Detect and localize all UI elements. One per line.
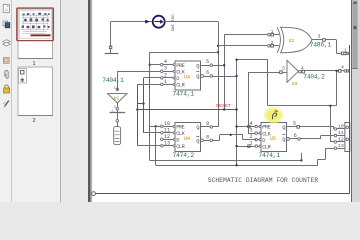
thumbnail page 1 paper — [18, 9, 53, 59]
svg-text:CLR: CLR — [262, 144, 271, 150]
right rail vertical — [236, 60, 238, 166]
svg-text:3: 3 — [249, 128, 252, 134]
reference U4 — [184, 136, 190, 142]
RESET wire — [137, 109, 236, 111]
xor gate U2 — [277, 27, 312, 53]
ground pin square — [109, 46, 111, 48]
page paper — [92, 0, 352, 202]
svg-text:6: 6 — [206, 70, 209, 76]
pad CLR3 wire — [248, 145, 250, 147]
thumbnail page 2 number — [32, 118, 35, 124]
label 1 near switch — [111, 110, 114, 114]
wire to offpage 1 — [336, 48, 349, 55]
svg-text:12: 12 — [338, 137, 344, 143]
title text — [208, 177, 319, 184]
wire D1 left — [144, 78, 161, 133]
wire PRE2 drop — [155, 126, 157, 165]
current arrow on wire — [145, 20, 150, 24]
wire Qbar1 to right rail — [213, 76, 237, 78]
flip-flop U4 — [175, 61, 201, 90]
thumbnail page 1 mini schematic — [20, 11, 52, 39]
pin 11 CLK of U4 — [161, 127, 186, 137]
svg-text:D: D — [262, 138, 265, 144]
jog Qbar3 pin11 — [333, 135, 335, 137]
RESET label — [216, 103, 231, 109]
svg-text:PRE: PRE — [176, 63, 184, 69]
highlight annotation — [264, 107, 283, 123]
pin 3 CLK of U4 — [161, 66, 186, 76]
svg-text:2: 2 — [271, 40, 274, 46]
flip-flop U5 second half clipped — [345, 123, 350, 152]
wire U3 output to offpage 4 — [305, 65, 350, 73]
junction rail reset — [235, 108, 237, 110]
pin 1 of U1 — [114, 87, 119, 91]
pin 3 CLK of U5 — [249, 128, 271, 138]
junction loop D4 — [329, 105, 331, 107]
svg-text:3: 3 — [282, 65, 285, 71]
svg-text:CLR: CLR — [176, 144, 185, 150]
svg-text:13: 13 — [164, 140, 170, 146]
junction U3out — [335, 70, 337, 72]
wire to ground — [110, 22, 112, 47]
pin 11 of U5 second half — [334, 130, 345, 137]
value label 7474,1 — [173, 90, 195, 97]
nav icon pages — [3, 5, 9, 13]
bottom wire B — [150, 153, 302, 161]
pin 4 of U3 — [299, 66, 305, 73]
pin 12 of U5 second half — [334, 137, 345, 144]
svg-text:8: 8 — [206, 134, 209, 140]
wire D4 stub — [330, 141, 334, 143]
svg-text:9: 9 — [206, 121, 209, 127]
sidebar panel right border — [60, 0, 62, 202]
flip-flop U4 — [175, 123, 201, 152]
wire U1 output down — [117, 110, 119, 119]
svg-text:U5: U5 — [270, 136, 276, 142]
svg-text:7404,2: 7404,2 — [303, 74, 325, 81]
svg-text:2: 2 — [32, 118, 35, 124]
wire PRE2 connect — [150, 126, 161, 128]
svg-text:RESET: RESET — [216, 103, 231, 109]
svg-text:2: 2 — [114, 106, 116, 110]
wire XOR pin1 net — [224, 35, 267, 110]
offpage left circle — [92, 192, 96, 196]
wire CLR2 connect — [137, 145, 160, 147]
pin 1 CLR of U4 — [161, 79, 186, 89]
pin 6 Qbar of U5 — [282, 133, 300, 143]
svg-text:3: 3 — [318, 34, 321, 40]
junction rail qbar1 — [235, 75, 237, 77]
pin 2 D of U5 — [249, 134, 265, 144]
pin 4 PRE of U5 — [249, 121, 270, 131]
junction rail 59 — [235, 59, 237, 61]
scrollbar thumb — [352, 0, 357, 69]
wire PRE3 connect — [237, 126, 255, 128]
thumbnail page 1 number — [32, 61, 35, 67]
wire CLR1 left — [137, 84, 160, 145]
schematic border right — [349, 45, 351, 194]
pin 13 CLR of U4 — [161, 140, 186, 150]
wire node A down — [218, 22, 220, 127]
thumbnail page 2 content box — [19, 69, 27, 84]
pad PRE3 wire — [248, 125, 250, 127]
svg-text:1: 1 — [164, 79, 167, 85]
label 7486 1 — [310, 42, 332, 49]
junction rail bottom — [235, 164, 237, 166]
wire circle to switch — [117, 122, 119, 126]
wire Qbar2 jog — [213, 135, 256, 141]
schematic border bottom — [95, 193, 350, 195]
wire CLK2 connect — [144, 132, 161, 134]
document canvas — [61, 0, 360, 202]
junction Q1 — [223, 64, 225, 66]
value label 7474,1 — [259, 152, 281, 159]
pin 2 of U2 — [268, 40, 279, 47]
svg-text:11: 11 — [164, 127, 170, 133]
pin 4 PRE of U4 — [161, 59, 185, 69]
junction mid — [217, 51, 219, 53]
svg-text:1: 1 — [271, 29, 274, 35]
wire loop to D4 — [330, 106, 332, 142]
wire CLR3 connect — [237, 146, 255, 148]
pin 10 PRE of U4 — [161, 121, 185, 131]
pin 8 Qbar of U4 — [196, 134, 212, 144]
nav icon layers blue — [3, 21, 10, 28]
svg-text:11: 11 — [338, 130, 344, 136]
thumbnail page 1 selected view box — [17, 8, 54, 41]
pin 6 Qbar of U4 — [196, 70, 212, 80]
reference U4 — [184, 75, 190, 81]
pin 2 D of U4 — [161, 72, 180, 82]
wire xor output down — [336, 40, 338, 54]
pin 1 CLR of U5 — [249, 141, 271, 151]
label 7404 2 — [303, 74, 325, 81]
pin 5 Q of U4 — [196, 59, 212, 69]
svg-text:6: 6 — [294, 133, 297, 139]
svg-text:7474,1: 7474,1 — [259, 152, 281, 159]
nav icon lock — [4, 85, 10, 93]
junction xor2 — [217, 45, 219, 47]
svg-text:U3: U3 — [292, 81, 298, 87]
junction rail pre3 — [235, 125, 237, 127]
wire Q1 to node — [213, 65, 224, 67]
maroon stub — [137, 103, 143, 105]
svg-text:10: 10 — [164, 121, 170, 127]
value label 7474,2 — [173, 152, 195, 159]
svg-text:12: 12 — [164, 134, 170, 140]
bottom wire A — [156, 148, 326, 165]
pin 10 of U5 second half — [334, 124, 345, 131]
thumbnail page 2 paper — [18, 67, 53, 116]
svg-text:CLR: CLR — [176, 83, 185, 89]
net tick bar — [110, 112, 126, 114]
svg-text:5: 5 — [293, 121, 296, 127]
svg-text:D: D — [176, 76, 179, 82]
label 7404 1 — [102, 77, 124, 84]
svg-text:U1: U1 — [114, 95, 120, 101]
icon strip border — [11, 0, 13, 202]
junction RESET left — [136, 108, 138, 110]
svg-text:1: 1 — [114, 87, 116, 91]
svg-text:US1 1MS: US1 1MS — [169, 15, 173, 32]
svg-text:7486,1: 7486,1 — [310, 42, 332, 49]
nav icon signature — [3, 100, 9, 108]
junction rail clr3 — [235, 145, 237, 147]
svg-text:4: 4 — [301, 66, 304, 72]
svg-text:5: 5 — [206, 59, 209, 65]
wire PRE1 junction to pin — [150, 64, 161, 66]
svg-text:PRE: PRE — [176, 125, 184, 131]
page left edge — [88, 0, 92, 202]
pin 5 Q of U5 — [282, 121, 299, 131]
junction D1 drop — [142, 102, 144, 104]
wire from current source left — [111, 21, 153, 23]
switch S1 — [114, 126, 121, 144]
inverter U3 — [287, 60, 298, 87]
wire to xor pin2 — [218, 45, 267, 47]
svg-text:U4: U4 — [184, 136, 190, 142]
junction PRE1 — [149, 63, 151, 65]
jog Q3 pin10 — [333, 127, 335, 129]
svg-text:D: D — [176, 138, 179, 144]
inverter U1 — [108, 94, 128, 103]
svg-text:3: 3 — [164, 66, 167, 72]
svg-text:4: 4 — [164, 59, 167, 65]
svg-text:13: 13 — [338, 143, 344, 149]
wire CLK1 from U1 — [117, 71, 160, 91]
nav icon layers light — [3, 40, 10, 47]
svg-text:1: 1 — [32, 61, 35, 67]
reference U5 — [270, 136, 276, 142]
svg-text:7474,1: 7474,1 — [173, 90, 195, 97]
wire loop left — [150, 52, 218, 54]
wire U3 input down — [248, 72, 255, 133]
svg-text:1: 1 — [344, 48, 347, 54]
pin 3 of U2 wire — [312, 34, 336, 42]
svg-text:U4: U4 — [184, 75, 190, 81]
svg-text:SCHEMATIC DIAGRAM FOR COUNTER: SCHEMATIC DIAGRAM FOR COUNTER — [208, 177, 319, 184]
node S1 pin circle — [116, 119, 119, 122]
svg-text:2: 2 — [164, 72, 167, 78]
svg-text:PRE: PRE — [262, 125, 270, 131]
wire Q2 up — [213, 126, 218, 128]
junction bottom B — [300, 159, 302, 161]
current source I1 — [153, 16, 165, 28]
wire U3out loop down — [336, 71, 338, 106]
flip-flop U5 — [261, 123, 287, 152]
wire current source to node — [164, 21, 218, 23]
wire CLR4 stub — [325, 148, 334, 150]
label US1 1MS — [169, 15, 173, 32]
junction PRE2 — [155, 125, 157, 127]
nav icon model tan — [3, 58, 9, 64]
junction RESET mid — [223, 108, 225, 110]
svg-text:7474,2: 7474,2 — [173, 152, 195, 159]
wire Q3 to FF4 pin10 — [300, 126, 334, 128]
wire into U3 — [248, 65, 287, 73]
nav icon paperclip — [5, 71, 8, 79]
pin 13 of U5 second half — [334, 143, 345, 150]
wire PRE chain vertical — [149, 52, 151, 160]
scrollbar track — [352, 0, 360, 202]
sidebar background — [0, 0, 61, 202]
FF4 output bubbles — [346, 126, 349, 141]
svg-text:4: 4 — [341, 65, 344, 71]
pin 12 D of U4 — [161, 134, 180, 144]
junction qbar2 — [230, 134, 232, 136]
ground — [105, 49, 119, 54]
svg-text:7404,1: 7404,1 — [102, 77, 124, 84]
pin 9 Q of U4 — [196, 121, 212, 131]
pin 1 of U2 — [268, 29, 279, 36]
wire Qbar3 to FF4 pin12 — [301, 136, 334, 139]
svg-text:U2: U2 — [289, 38, 295, 44]
svg-text:10: 10 — [338, 124, 344, 130]
pin 2 of U1 — [114, 103, 119, 110]
wire rail top right — [237, 60, 337, 106]
